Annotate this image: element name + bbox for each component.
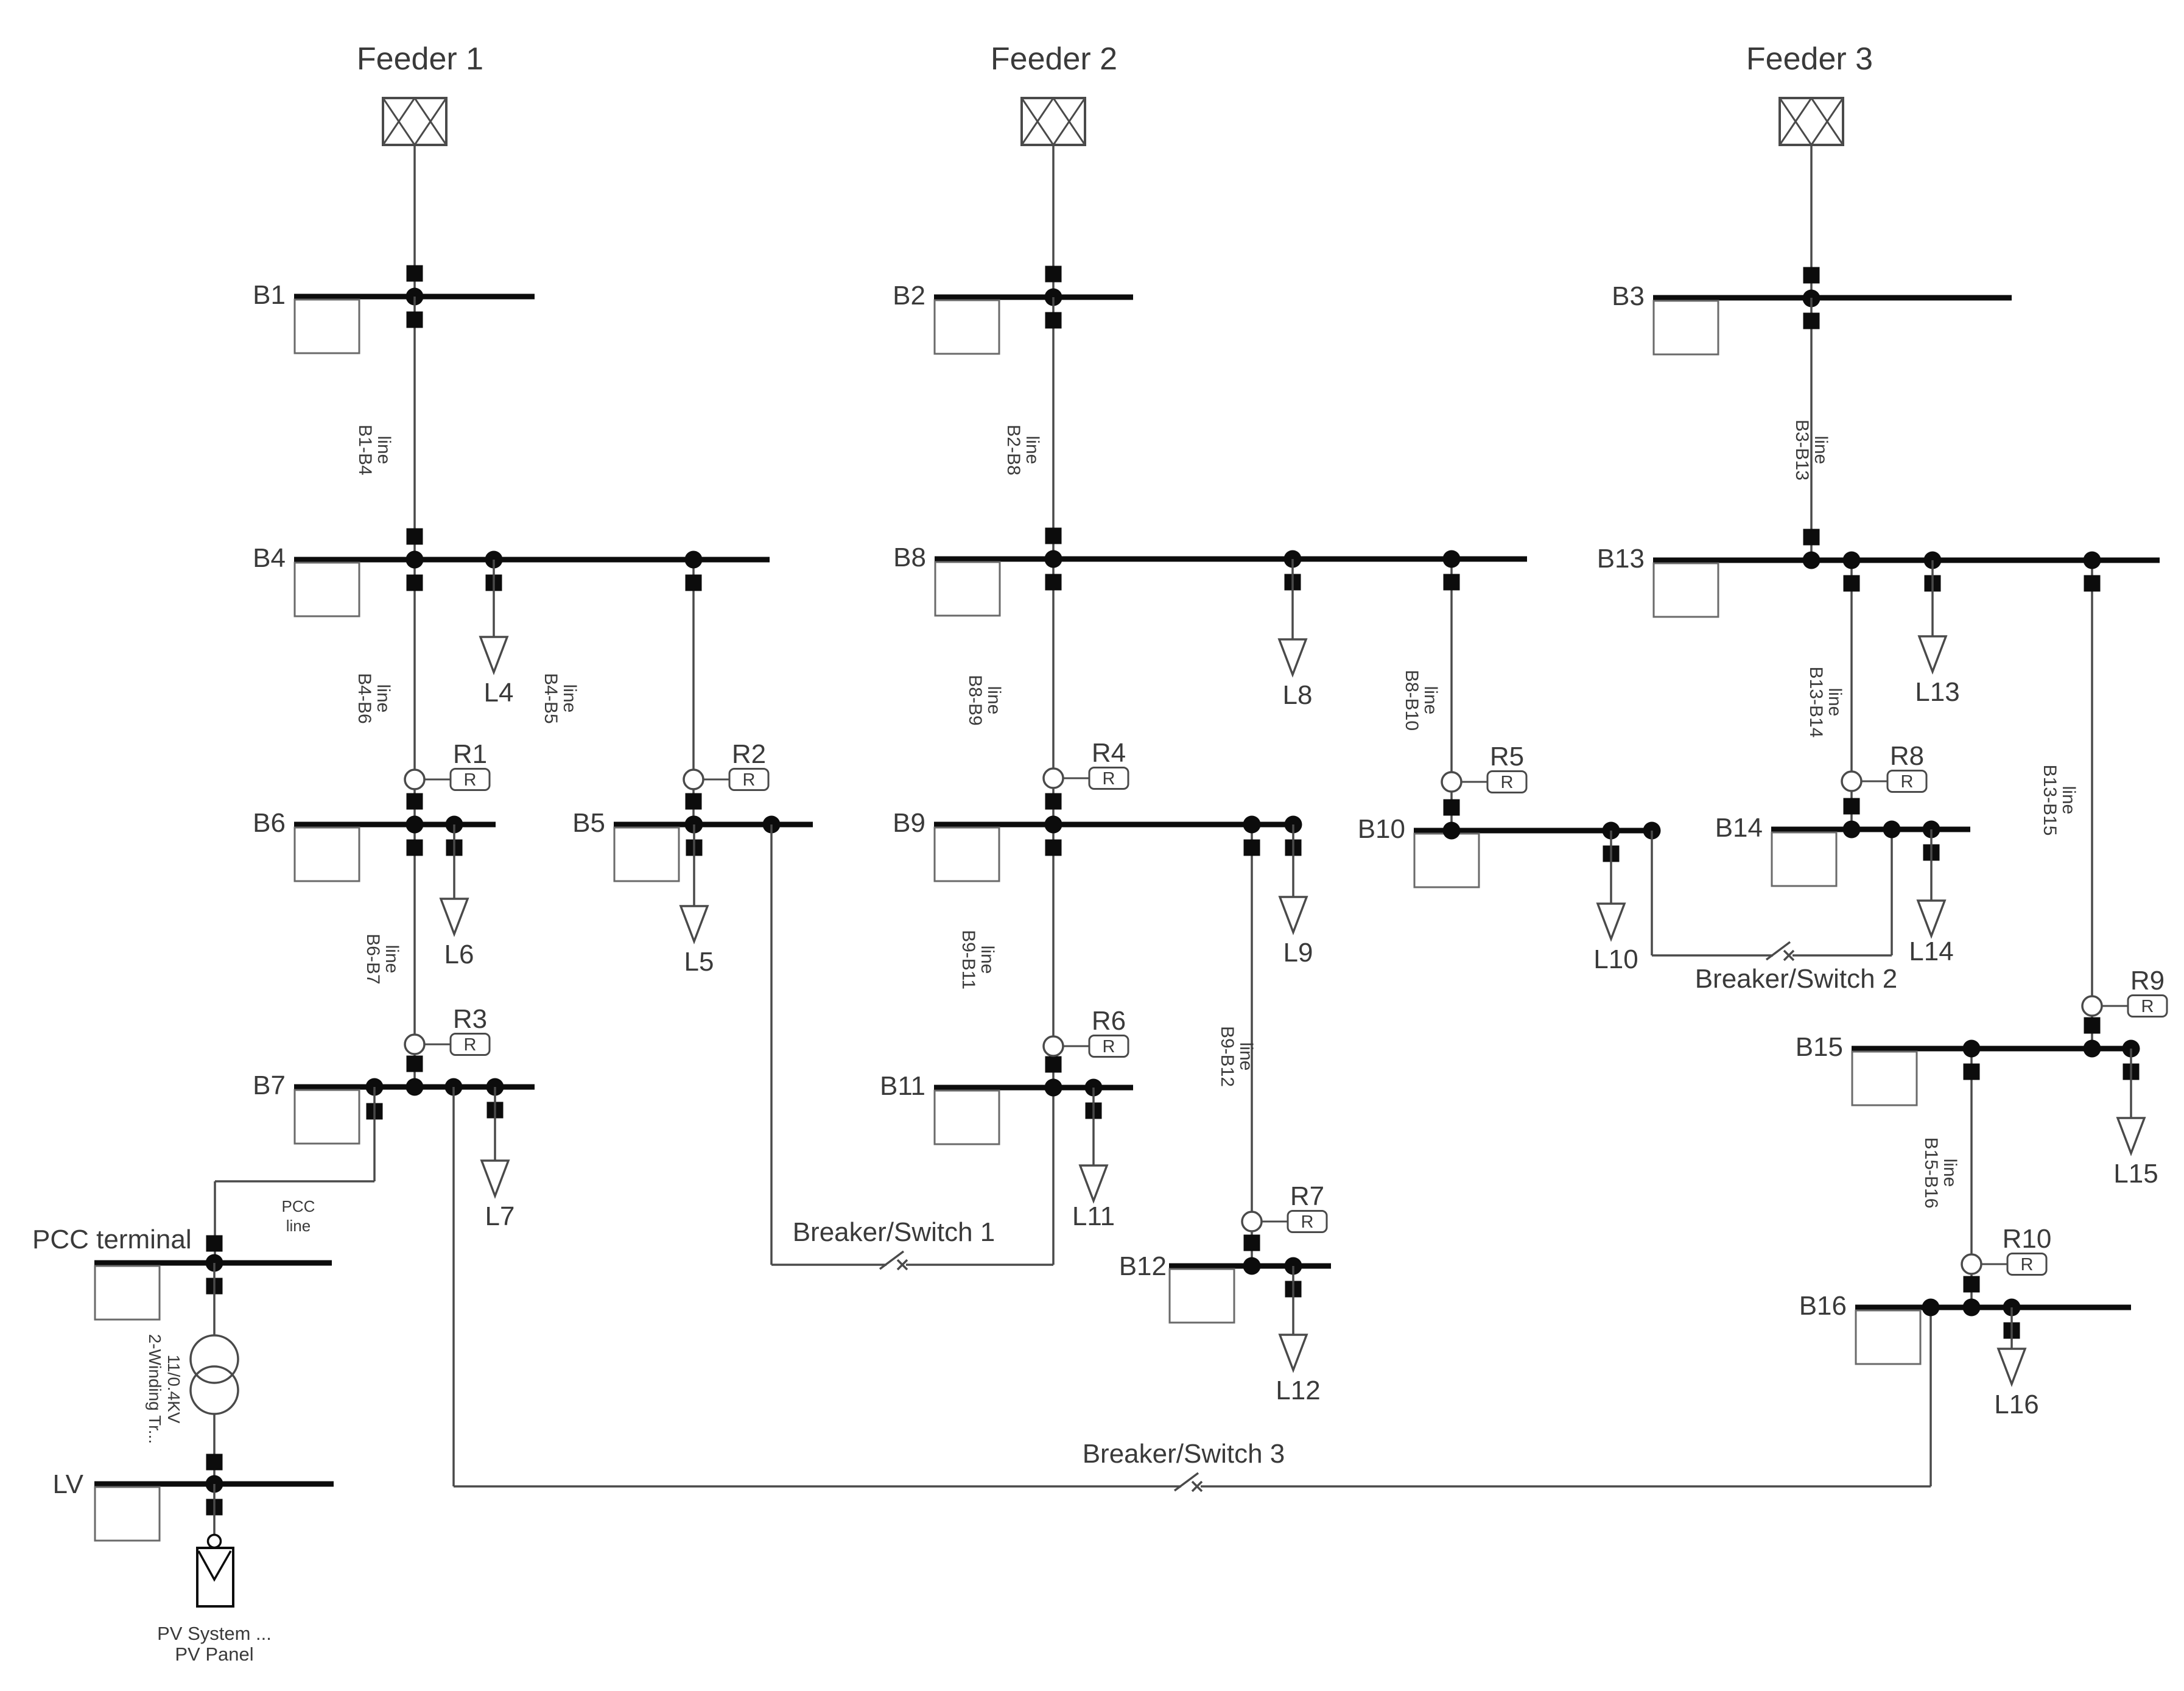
bus B3 (busbar, frame, label) [1612,281,2012,354]
svg-text:R3: R3 [453,1004,487,1034]
svg-text:R5: R5 [1490,742,1524,772]
svg-text:B9-B12: B9-B12 [1217,1026,1237,1087]
svg-text:B6-B7: B6-B7 [363,933,383,984]
svg-text:B13-B14: B13-B14 [1806,667,1826,738]
bus B4 (busbar, frame, label) [253,543,770,616]
svg-text:B5: B5 [572,808,605,838]
load L12 (junction, breaker, wire, arrow, label) [1276,1257,1320,1406]
bus B8 (busbar, frame, label) [893,543,1527,616]
line B15-B16 (wire, breaker, junctions, label) [1921,1040,1981,1317]
bus B9 (busbar, frame, label) [893,808,1296,881]
svg-text:R2: R2 [732,739,766,769]
svg-text:line: line [984,686,1004,715]
svg-text:line: line [560,684,580,713]
svg-text:B10: B10 [1358,814,1405,844]
svg-text:R: R [2021,1255,2034,1274]
svg-text:B13-B15: B13-B15 [2040,765,2060,836]
svg-text:L7: L7 [485,1201,515,1231]
svg-text:B12: B12 [1119,1251,1167,1281]
svg-text:line: line [1236,1042,1256,1071]
bus B16 (busbar, frame, label) [1799,1291,2131,1364]
svg-text:line: line [1940,1159,1960,1187]
tie Breaker/Switch 1 (wire B5 to B11, switch, label) [763,816,1062,1270]
tie Breaker/Switch 2 (wire B10 to B14, switch, label) [1643,821,1901,994]
svg-text:line: line [286,1217,311,1235]
svg-text:L13: L13 [1915,677,1959,707]
svg-text:B2-B8: B2-B8 [1003,424,1024,475]
svg-text:L11: L11 [1072,1201,1115,1231]
svg-text:B7: B7 [253,1070,286,1100]
svg-text:B9-B11: B9-B11 [958,930,978,990]
svg-text:R: R [464,770,477,790]
relay R4 (CT circle, link, R box, breaker, label) [1044,738,1128,810]
relay R2 (CT circle, link, R box, breaker, label) [684,739,768,810]
svg-text:B3: B3 [1612,281,1645,311]
svg-text:B15: B15 [1796,1032,1843,1062]
svg-text:R: R [464,1035,477,1055]
svg-text:line: line [382,945,402,974]
svg-text:R9: R9 [2130,966,2165,996]
bus B5 (busbar, frame, label) [572,808,813,881]
svg-text:B3-B13: B3-B13 [1792,420,1812,480]
svg-text:L14: L14 [1909,937,1953,966]
svg-text:B8: B8 [893,543,926,572]
line PCC (wire B7 to PCC terminal, breakers, label) [206,1078,384,1272]
line B3-B13 (wire, breakers, junctions, label) [1792,298,1831,569]
load L15 (junction, breaker, wire, arrow, label) [2113,1040,2158,1189]
svg-text:LV: LV [52,1469,83,1499]
svg-text:B8-B10: B8-B10 [1402,670,1422,731]
svg-text:R10: R10 [2003,1224,2052,1254]
svg-text:R1: R1 [453,739,487,769]
svg-text:L5: L5 [684,947,714,977]
transformer T1 2-Winding 11/0.4KV (windings, breakers, label) [146,1263,238,1493]
svg-text:R: R [1103,1037,1115,1056]
svg-text:R: R [2141,997,2154,1016]
svg-text:Breaker/Switch 2: Breaker/Switch 2 [1695,964,1898,994]
svg-text:B15-B16: B15-B16 [1921,1137,1941,1209]
svg-text:R: R [1901,772,1914,792]
svg-text:L12: L12 [1276,1376,1320,1405]
bus PCC (busbar, frame, label) [32,1225,332,1320]
svg-text:Feeder 1: Feeder 1 [357,41,483,77]
wire Feeder 2 grid to B2 [1045,145,1062,306]
svg-text:Breaker/Switch 1: Breaker/Switch 1 [793,1217,995,1247]
svg-text:R: R [743,770,756,790]
bus B13 (busbar, frame, label) [1597,544,2160,617]
svg-text:L10: L10 [1593,944,1638,974]
load L10 (junction, breaker, wire, arrow, label) [1593,822,1638,975]
feeder title Feeder 3 [1746,41,1873,77]
svg-text:L9: L9 [1283,938,1313,968]
svg-text:L15: L15 [2113,1159,2158,1189]
svg-text:B8-B9: B8-B9 [965,675,985,725]
relay R9 (CT circle, link, R box, breaker, label) [2082,966,2167,1034]
svg-text:PCC: PCC [282,1197,315,1215]
relay R3 (CT circle, link, R box, breaker, label) [405,1004,490,1072]
svg-text:Feeder 2: Feeder 2 [991,41,1117,77]
line B9-B12 (wire, breaker, junctions, label) [1217,816,1261,1275]
svg-text:B13: B13 [1597,544,1645,574]
svg-text:R: R [1501,773,1514,792]
line B1-B4 (wire, breakers, junctions, label) [355,297,424,569]
bus LV (busbar, frame, label) [52,1469,334,1541]
svg-text:PV Panel: PV Panel [175,1644,253,1665]
svg-text:B1-B4: B1-B4 [355,424,375,475]
load L16 (junction, breaker, wire, arrow, label) [1994,1299,2038,1420]
bus B14 (busbar, frame, label) [1715,813,1970,886]
feeder title Feeder 2 [991,41,1117,77]
tie Breaker/Switch 3 (wire B7 to B16, switch, label) [445,1078,1940,1492]
svg-text:R4: R4 [1092,738,1126,768]
svg-text:L16: L16 [1994,1390,2038,1419]
svg-text:L6: L6 [444,940,474,969]
load L13 (junction, breaker, wire, arrow, label) [1915,552,1959,708]
relay R1 (CT circle, link, R box, breaker, label) [405,739,490,810]
relay R10 (CT circle, link, R box, breaker, label) [1962,1224,2051,1293]
external grid G1 (Feeder 1) [383,98,446,145]
svg-text:line: line [2059,786,2079,815]
svg-text:B4-B5: B4-B5 [541,673,561,723]
load L8 (junction, breaker, wire, arrow, label) [1279,550,1312,711]
relay R7 (CT circle, link, R box, breaker, label) [1242,1181,1327,1251]
line B13-B15 (wire, breaker, junctions, label) [2040,552,2101,1058]
wire Feeder 3 grid to B3 [1803,145,1821,308]
line B8-B9 (wire, breaker, junctions, label) [965,550,1062,834]
svg-text:line: line [374,436,394,465]
line B9-B11 (wire, breaker, junctions, label) [958,816,1062,1097]
svg-text:B16: B16 [1799,1291,1847,1321]
svg-text:line: line [1420,686,1441,715]
svg-text:B6: B6 [253,808,286,838]
svg-text:R: R [1103,769,1115,789]
bus B7 (busbar, frame, label) [253,1070,535,1144]
external grid G2 (Feeder 2) [1022,98,1085,145]
svg-text:L4: L4 [484,678,514,708]
svg-text:R6: R6 [1092,1006,1126,1036]
svg-text:R8: R8 [1890,741,1924,771]
svg-text:2-Winding Tr...: 2-Winding Tr... [146,1334,164,1444]
load L9 (junction, breaker, wire, arrow, label) [1280,816,1313,968]
svg-text:line: line [1825,688,1845,717]
svg-text:line: line [1811,436,1831,465]
external grid G3 (Feeder 3) [1780,98,1843,145]
line B13-B14 (wire, breaker, junctions, label) [1806,552,1861,838]
svg-text:B9: B9 [893,808,925,838]
bus B10 (busbar, frame, label) [1358,814,1660,887]
bus B15 (busbar, frame, label) [1796,1032,2139,1105]
bus B6 (busbar, frame, label) [253,808,496,881]
svg-text:B14: B14 [1715,813,1763,843]
load L5 (junction, breaker, wire, arrow, label) [681,816,714,977]
load L7 (junction, breaker, wire, arrow, label) [482,1078,514,1232]
load L6 (junction, breaker, wire, arrow, label) [441,816,474,970]
svg-text:11/0.4KV: 11/0.4KV [164,1354,183,1423]
svg-text:R7: R7 [1290,1181,1324,1211]
bus B2 (busbar, frame, label) [893,281,1133,354]
svg-text:B4-B6: B4-B6 [354,673,374,723]
svg-text:PCC terminal: PCC terminal [32,1225,192,1254]
relay R6 (CT circle, link, R box, breaker, label) [1044,1006,1128,1073]
line B8-B10 (wire, breaker, junctions, label) [1402,550,1461,840]
load L11 (junction, breaker, wire, arrow, label) [1072,1079,1115,1232]
relay R8 (CT circle, link, R box, breaker, label) [1842,741,1926,815]
svg-text:line: line [1022,436,1042,465]
bus B11 (busbar, frame, label) [880,1071,1133,1144]
load L4 (junction, breaker, wire, arrow, label) [480,551,513,708]
svg-text:line: line [977,946,997,974]
svg-text:Breaker/Switch 3: Breaker/Switch 3 [1083,1439,1285,1469]
svg-text:Feeder 3: Feeder 3 [1746,41,1873,77]
feeder title Feeder 1 [357,41,483,77]
svg-text:B4: B4 [253,543,286,573]
svg-text:L8: L8 [1283,680,1313,710]
svg-text:PV System ...: PV System ... [157,1623,272,1644]
svg-text:R: R [1301,1212,1314,1232]
line B4-B5 (wire, breaker, junctions, label) [541,551,703,834]
line B4-B6 (wire, breaker, junctions, label) [354,551,424,834]
wire Feeder 1 grid to B1 [406,145,424,306]
load L14 (junction, breaker, wire, arrow, label) [1909,821,1953,967]
line B2-B8 (wire, breakers, junctions, label) [1003,297,1062,568]
svg-text:B11: B11 [880,1071,925,1101]
relay R5 (CT circle, link, R box, breaker, label) [1442,742,1526,816]
PV System G (breaker, wire, panel symbol, label) [157,1484,272,1665]
svg-text:line: line [373,684,393,713]
bus B12 (busbar, frame, label) [1119,1251,1331,1323]
svg-text:B2: B2 [893,281,925,311]
bus B1 (busbar, frame, label) [253,280,535,353]
svg-text:B1: B1 [253,280,286,310]
line B6-B7 (wire, breaker, junctions, label) [363,816,424,1096]
